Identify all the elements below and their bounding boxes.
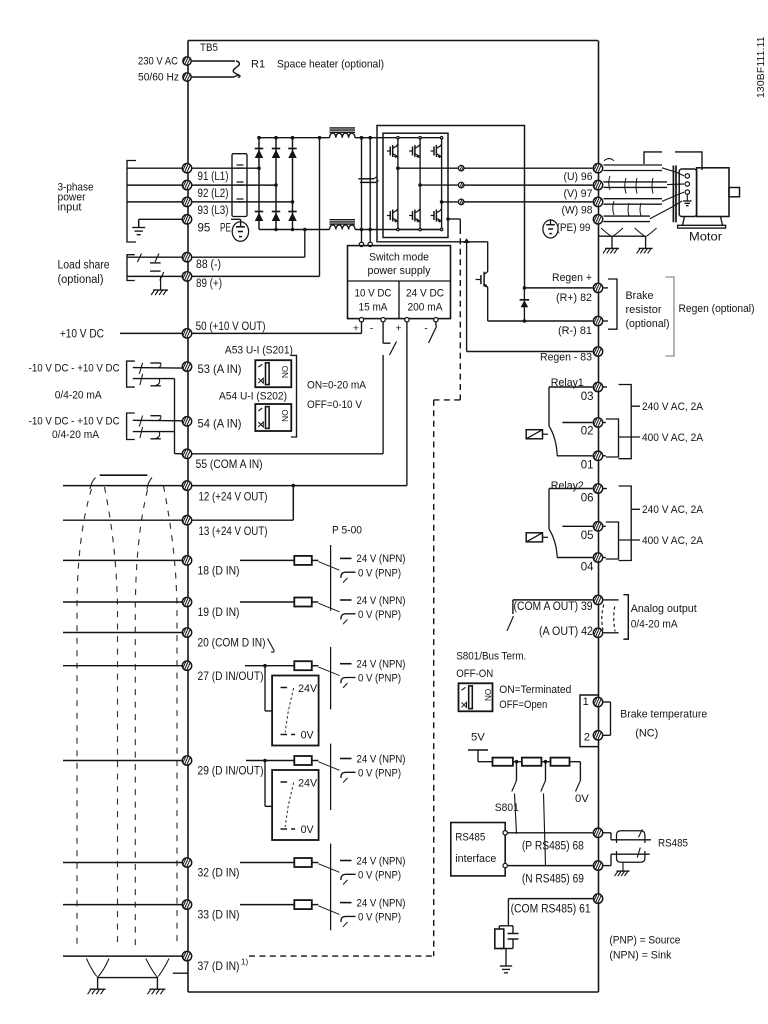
label 88 (-) [196, 259, 221, 271]
svg-text:OFF=0-10 V: OFF=0-10 V [307, 399, 362, 411]
terminal 55 (COM A IN) [182, 449, 191, 458]
terminal 33 (D IN) [182, 900, 191, 909]
slash marks wire 88 [138, 254, 161, 263]
wire 29 input [63, 760, 182, 762]
terminal Regen - 83 [593, 347, 602, 356]
svg-text:Regen (optional): Regen (optional) [679, 303, 755, 315]
svg-text:230 V AC: 230 V AC [138, 56, 178, 68]
diode lower leg2 [272, 212, 281, 222]
wire DC+ tap to SMPS [359, 138, 363, 247]
label (V) 97 [564, 188, 593, 200]
label (R-) 81 [558, 325, 592, 337]
svg-text:Relay2: Relay2 [551, 480, 584, 492]
label 5V [471, 732, 485, 744]
svg-text:Analog output: Analog output [631, 603, 698, 615]
terminal 32 (D IN) [182, 858, 191, 867]
svg-text:resistor: resistor [626, 304, 662, 316]
terminal 95 PE [182, 215, 191, 224]
switch A54 U-I [255, 404, 291, 431]
inverter bottom bus [397, 137, 443, 231]
inverter leg V [419, 138, 421, 230]
switch 10V- common [383, 322, 396, 355]
svg-text:0/4-20 mA: 0/4-20 mA [55, 390, 102, 402]
switch S801 contact left [512, 762, 517, 834]
svg-text:27 (D IN/OUT): 27 (D IN/OUT) [198, 669, 264, 683]
svg-text:20 (COM D IN): 20 (COM D IN) [198, 636, 266, 650]
svg-text:(P RS485) 68: (P RS485) 68 [522, 840, 584, 852]
svg-text:A54 U-I (S202): A54 U-I (S202) [219, 390, 287, 402]
svg-text:2: 2 [584, 731, 590, 743]
label 12 (+24 V OUT) [199, 490, 268, 504]
label 91 (L1) [198, 171, 229, 183]
svg-text:95: 95 [198, 222, 211, 234]
fork 18 [294, 553, 405, 582]
label 18 (D IN) [198, 564, 240, 578]
svg-text:-: - [370, 323, 374, 335]
svg-text:200 mA: 200 mA [408, 302, 444, 314]
svg-text:91 (L1): 91 (L1) [198, 171, 229, 183]
label polarity + - + - [353, 323, 428, 335]
resistor term 1 [493, 758, 513, 766]
label 2 [584, 731, 590, 743]
terminal 37 (D IN) [182, 951, 191, 960]
shield dashed line 3 [135, 490, 147, 947]
motor cable conductor U [604, 165, 685, 176]
ground cable shield left [88, 989, 106, 994]
label P 5-00 [332, 525, 362, 537]
wire U to terminal 96 [464, 167, 592, 169]
analog input 54 wiring [127, 413, 183, 440]
label OFF=0-10 V [307, 399, 362, 411]
svg-text:130BF111.11: 130BF111.11 [756, 36, 767, 98]
label 95 PE [198, 222, 232, 234]
label 05 [581, 530, 594, 542]
svg-text:19 (D IN): 19 (D IN) [198, 605, 240, 619]
wire DC+ to inverter [355, 136, 442, 140]
svg-text:24 V DC: 24 V DC [406, 288, 444, 300]
inverter inner box [383, 133, 448, 237]
svg-text:13 (+24 V OUT): 13 (+24 V OUT) [199, 524, 268, 538]
cable shield arc left top [90, 478, 96, 490]
terminal (U) 96 [593, 164, 602, 173]
label 10 V DC 15 mA [355, 288, 392, 314]
terminal 50/60 Hz [183, 73, 191, 82]
svg-text:04: 04 [581, 562, 594, 574]
wire 93 to rectifier [192, 200, 295, 204]
wire gate tap to boundary [446, 217, 460, 228]
motor connector pins [685, 174, 689, 195]
svg-text:Brake temperature: Brake temperature [620, 709, 707, 721]
wire 92 to rectifier [192, 183, 278, 187]
label 1 [583, 696, 589, 708]
RS485 cable upper [603, 829, 651, 843]
wire 68 [507, 832, 592, 834]
wire 19 internal [240, 601, 294, 603]
svg-text:37 (D IN): 37 (D IN) [198, 959, 240, 973]
wire 18 internal [240, 559, 294, 561]
svg-text:53 (A IN): 53 (A IN) [198, 362, 242, 376]
svg-text:(A OUT) 42: (A OUT) 42 [539, 626, 593, 638]
label 0/4-20 mA (53) [55, 390, 102, 402]
analog input 53 wiring [127, 361, 183, 387]
bracket relay2 inner [603, 522, 619, 559]
rectifier leg 2 [275, 138, 277, 230]
wire 10V- to terminal 55 [192, 355, 383, 454]
label NPN Sink [609, 949, 671, 961]
drawing number 130BF111.11 [756, 36, 767, 98]
node SMPS 24V+ [405, 318, 409, 322]
svg-text:(COM A OUT) 39: (COM A OUT) 39 [514, 601, 593, 613]
wire 19 input [63, 601, 182, 603]
fork bar 29 [330, 744, 332, 810]
fork bar 27 [330, 647, 332, 710]
selector box 27 [272, 676, 319, 746]
svg-text:(NC): (NC) [635, 728, 658, 740]
svg-text:interface: interface [455, 853, 496, 865]
wire +10V DC input [120, 332, 182, 334]
terminal (COM RS485) 61 [593, 894, 602, 903]
terminal brake temp 2 [593, 731, 602, 740]
label A53 U-I (S201) [225, 345, 293, 357]
label (COM RS485) 61 [511, 903, 591, 915]
wire L3 input [127, 201, 182, 203]
label A54 U-I (S202) [219, 390, 287, 402]
label 24 V DC 200 mA [406, 288, 444, 314]
svg-text:0 V (PNP): 0 V (PNP) [358, 912, 401, 924]
svg-text:0V: 0V [575, 793, 589, 805]
wire 89 input [127, 275, 182, 277]
bracket regen optional [666, 277, 675, 356]
label 53 (A IN) [198, 362, 242, 376]
wire 18 input [63, 559, 182, 561]
label 0V [575, 793, 589, 805]
bracket relay2 outer [603, 486, 631, 561]
wire R+ from DC+ [523, 286, 593, 290]
svg-text:5V: 5V [471, 732, 485, 744]
shield dashed line 1 [77, 489, 92, 947]
ground cable shield right [147, 989, 165, 994]
cable clamp [644, 152, 702, 170]
wire brake IGBT emitter [488, 287, 593, 323]
fork 32 [294, 855, 405, 884]
wire PE input [139, 219, 183, 227]
label Regen (optional) [679, 303, 755, 315]
rectifier leg 3 [292, 138, 294, 230]
diode upper leg3 [288, 149, 297, 159]
wire 32 input [63, 862, 182, 864]
terminal 93 (L3) [182, 197, 191, 206]
label 3-phase power input [58, 182, 94, 214]
wire DC- tap to SMPS [368, 138, 372, 247]
svg-text:power supply: power supply [368, 265, 431, 277]
inductor DC+ choke [330, 128, 356, 138]
svg-text:24 V (NPN): 24 V (NPN) [357, 595, 406, 607]
svg-text:06: 06 [581, 493, 594, 505]
inverter leg U [397, 138, 399, 230]
terminal 01 [593, 451, 602, 460]
label Space heater (optional) [277, 59, 384, 71]
rectifier leg 1 [258, 138, 260, 230]
svg-text:0 V (PNP): 0 V (PNP) [358, 768, 401, 780]
svg-text:-10 V DC - +10 V DC: -10 V DC - +10 V DC [29, 363, 120, 375]
svg-text:15 mA: 15 mA [359, 302, 389, 314]
label 240 V AC 2A relay1 [631, 401, 703, 413]
label Regen + [552, 272, 592, 284]
analog output cable [602, 600, 619, 632]
IGBT upper W [431, 144, 442, 158]
wire 27 input [63, 665, 182, 667]
selector box 29 [272, 770, 319, 840]
wire 10V+ to terminal 50 [192, 322, 362, 333]
label OFF-ON [456, 668, 493, 680]
terminal 92 (L2) [182, 180, 191, 189]
junction DC- brake tap [463, 238, 469, 243]
relay1 coil [526, 430, 548, 439]
svg-text:(U) 96: (U) 96 [564, 171, 593, 183]
svg-text:(COM RS485) 61: (COM RS485) 61 [511, 903, 591, 915]
label 50/60 Hz [138, 72, 179, 84]
label ON=0-20 mA [307, 380, 366, 392]
bracket relay1 outer [603, 385, 631, 459]
svg-text:-: - [424, 323, 428, 335]
wire 29 internal [246, 759, 294, 763]
bracket load share [127, 255, 135, 281]
switch mode power supply box [348, 246, 451, 319]
svg-text:(optional): (optional) [626, 318, 670, 330]
label 13 (+24 V OUT) [199, 524, 268, 538]
label Relay2 [551, 480, 584, 492]
label PNP Source [609, 935, 680, 947]
svg-text:Regen +: Regen + [552, 272, 592, 284]
RFI filter box [232, 154, 247, 217]
svg-text:24 V (NPN): 24 V (NPN) [357, 897, 406, 909]
label -10 V DC +10 V DC (53) [29, 363, 120, 375]
wire 13 input [63, 519, 182, 521]
label S801/Bus Term. [456, 651, 526, 663]
cable shield arc right top [147, 478, 152, 490]
fork 33 [294, 897, 405, 926]
label Brake temperature (NC) [620, 709, 707, 740]
svg-text:Brake: Brake [626, 290, 654, 302]
wire V to terminal 97 [464, 184, 592, 186]
wire 89 to DC+ [192, 275, 320, 277]
svg-text:ON: ON [483, 689, 492, 701]
svg-text:93 (L3): 93 (L3) [198, 205, 229, 217]
svg-text:0V: 0V [301, 730, 315, 742]
svg-text:400 V AC, 2A: 400 V AC, 2A [642, 432, 703, 444]
terminal (COM A OUT) 39 [593, 595, 602, 604]
resistor R1 space heater [233, 61, 240, 78]
svg-text:S801: S801 [495, 802, 519, 814]
svg-text:(W) 98: (W) 98 [562, 205, 593, 217]
wire 13 to 12 link [192, 484, 295, 520]
svg-text:02: 02 [581, 426, 594, 438]
label 230 V AC [138, 56, 178, 68]
label ON=Terminated [499, 684, 571, 696]
node SMPS 10V+ [359, 318, 363, 322]
svg-text:Switch mode: Switch mode [369, 252, 429, 264]
svg-text:ON=Terminated: ON=Terminated [499, 684, 571, 696]
terminal 230V AC [183, 57, 191, 66]
terminal 19 (D IN) [182, 597, 191, 606]
bracket relay1 inner [603, 419, 619, 457]
label 20 (COM D IN) [198, 636, 266, 650]
shield drain Y left [601, 228, 623, 248]
svg-text:Regen - 83: Regen - 83 [540, 352, 592, 364]
bracket 3-phase input [127, 161, 136, 243]
IGBT upper U [387, 144, 398, 158]
svg-text:+10 V DC: +10 V DC [60, 328, 104, 340]
RS485 interface box [451, 823, 505, 876]
label Switch mode power supply [368, 252, 431, 278]
label 06 [581, 493, 594, 505]
slash marks wire 89 [150, 271, 164, 280]
inverter outer box / DC bus loop [377, 126, 525, 288]
brake temperature box [580, 695, 598, 747]
wire 24V+ to terminal 12 [192, 322, 407, 486]
cable shield arcs [604, 159, 653, 216]
svg-text:89 (+): 89 (+) [196, 278, 222, 290]
terminal (R-) 81 [593, 316, 602, 325]
svg-text:01: 01 [581, 460, 594, 472]
svg-text:1): 1) [241, 958, 248, 967]
bracket analog output [623, 595, 628, 639]
cable jacket top [100, 474, 148, 476]
svg-text:0 V (PNP): 0 V (PNP) [358, 870, 401, 882]
label (U) 96 [564, 171, 593, 183]
svg-text:1: 1 [583, 696, 589, 708]
wire phase V out [418, 183, 458, 187]
terminal 88 (-) [182, 253, 191, 262]
motor terminal bars [673, 166, 676, 223]
wire 20 input [63, 632, 182, 634]
svg-text:(PNP) = Source: (PNP) = Source [609, 935, 680, 947]
label Analog output [631, 603, 698, 615]
svg-text:RS485: RS485 [455, 831, 485, 843]
svg-text:24 V (NPN): 24 V (NPN) [357, 659, 406, 671]
PE ground symbol output [543, 219, 558, 238]
wire L1 input [127, 167, 182, 169]
fork bar 18/19 [330, 545, 332, 611]
terminal 12 (+24 V OUT) [182, 481, 191, 490]
wire 12 input [63, 485, 182, 487]
ground RC network [500, 966, 512, 973]
svg-text:0 V (PNP): 0 V (PNP) [358, 567, 401, 579]
bracket brake resistor [604, 279, 618, 329]
svg-text:(PE) 99: (PE) 99 [557, 222, 591, 234]
label 29 (D IN/OUT) [198, 764, 264, 778]
wire regen minus drop [467, 242, 593, 352]
IGBT lower U [387, 209, 398, 223]
wire funnel link [98, 977, 158, 979]
svg-text:18 (D IN): 18 (D IN) [198, 564, 240, 578]
wire 27 selector tap [265, 666, 288, 711]
motor body [697, 168, 729, 217]
terminal 06 [593, 484, 602, 493]
svg-text:(optional): (optional) [58, 274, 104, 286]
label OFF=Open [499, 699, 547, 711]
terminal (A OUT) 42 [593, 628, 602, 637]
wire 29 selector tap [265, 761, 288, 807]
terminal 91 (L1) [182, 164, 191, 173]
label 33 (D IN) [198, 908, 240, 922]
svg-text:03: 03 [581, 391, 594, 403]
bracket A53 A54 [291, 355, 297, 437]
svg-text:OFF=Open: OFF=Open [499, 699, 547, 711]
label R1 [251, 59, 265, 71]
terminal (W) 98 [593, 197, 602, 206]
label 400 V AC 2A relay2 [619, 535, 704, 547]
label 0/4-20 mA out [631, 619, 678, 631]
svg-text:50/60 Hz: 50/60 Hz [138, 72, 179, 84]
shield dashed line 2 [105, 487, 118, 947]
label (R+) 82 [556, 292, 592, 304]
RS485 cable lower [603, 848, 650, 866]
resistor term 3 [551, 758, 570, 766]
motor cable conductor W [604, 192, 685, 204]
svg-text:ON: ON [280, 366, 289, 378]
terminal (P RS485) 68 [593, 828, 602, 837]
fork bar 32/33 [330, 844, 332, 931]
wire 37 input [63, 955, 182, 957]
label 400 V AC 2A relay1 [619, 432, 704, 444]
wire term chain [478, 760, 580, 764]
switch 20 common [268, 639, 275, 653]
label 93 (L3) [198, 205, 229, 217]
svg-text:29 (D IN/OUT): 29 (D IN/OUT) [198, 764, 264, 778]
node phase U [458, 165, 464, 171]
wire 33 input [63, 904, 182, 906]
motor cable conductor V [604, 182, 685, 188]
label RS485 cable [658, 838, 688, 850]
wire phase W out [440, 200, 458, 204]
wire 88 to DC- [192, 256, 305, 258]
terminal 05 [593, 522, 602, 531]
motor shaft [729, 188, 740, 197]
wire DC- to load share 88 [304, 230, 306, 258]
node SMPS 24V- [434, 318, 438, 322]
label (W) 98 [562, 205, 593, 217]
ground shield left [603, 248, 619, 253]
label 50 (+10 V OUT) [196, 319, 266, 333]
svg-text:input: input [58, 202, 83, 214]
svg-text:240 V AC, 2A: 240 V AC, 2A [642, 401, 703, 413]
wire 32 internal [240, 862, 294, 864]
wire 33 internal [240, 904, 294, 906]
wire heater lower [191, 75, 239, 78]
svg-text:10 V DC: 10 V DC [355, 288, 392, 300]
wire 61 [508, 899, 592, 926]
svg-text:88 (-): 88 (-) [196, 259, 221, 271]
terminal 50 (+10 V OUT) [182, 329, 191, 338]
label RS485 interface [455, 831, 496, 865]
drive enclosure outline [188, 41, 599, 993]
wire 42 stub [604, 632, 619, 634]
resistor term 2 [522, 758, 542, 766]
svg-text:24V: 24V [298, 683, 318, 695]
label (A OUT) 42 [539, 626, 593, 638]
terminal 18 (D IN) [182, 556, 191, 565]
ground load share [151, 276, 168, 295]
node RS485 N [503, 863, 507, 867]
wire brake temp loop [603, 702, 611, 735]
label 92 (L2) [198, 188, 229, 200]
svg-text:400 V AC, 2A: 400 V AC, 2A [642, 535, 703, 547]
label Brake resistor (optional) [626, 290, 670, 330]
terminal 03 [593, 382, 602, 391]
terminal 53 (A IN) [182, 362, 191, 371]
svg-text:24V: 24V [298, 778, 318, 790]
